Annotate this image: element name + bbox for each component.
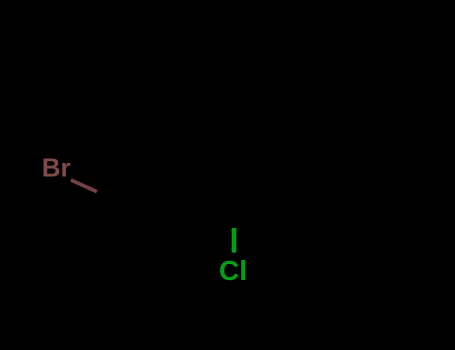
wire bond C1-Cl carbon half	[232, 203, 235, 228]
wire bond C8a-C1 (single)	[234, 171, 290, 203]
wire bond C4a-C8a inner double line	[281, 115, 284, 164]
wire bond C5-C6 (double outer)	[345, 75, 401, 107]
wire bond C2-C3 (left ring, single)	[177, 107, 180, 171]
wire bond C1-C2 inner double line	[188, 169, 230, 193]
wire bond C4a-C8a (fusion, double outer)	[288, 107, 291, 171]
wire bond C3-C4 inner double line	[189, 93, 231, 117]
wire bond CH2-Br bromine half	[71, 180, 97, 192]
wire bond C4-C4a (single)	[234, 75, 290, 107]
wire bond C3-C4 (left ring, double outer)	[179, 75, 235, 107]
wire bond C4a-C5 (right ring, single)	[290, 75, 346, 107]
svg-text:Br: Br	[42, 153, 71, 183]
wire bond C7-C8 (double outer)	[345, 171, 401, 203]
svg-text:Cl: Cl	[219, 255, 247, 286]
wire bond C8-C8a (single)	[290, 171, 346, 203]
wire bond C6-C7 (single)	[399, 107, 402, 171]
wire bond CH2-Br carbon half	[97, 192, 123, 204]
wire bond CH2-C2 (single)	[123, 171, 179, 203]
wire bond C5-C6 inner double line	[349, 93, 391, 117]
wire bond C7-C8 inner double line	[349, 162, 391, 186]
wire bond C1-Cl chlorine half	[232, 228, 237, 253]
wire bond C1-C2 (double outer)	[179, 171, 235, 203]
